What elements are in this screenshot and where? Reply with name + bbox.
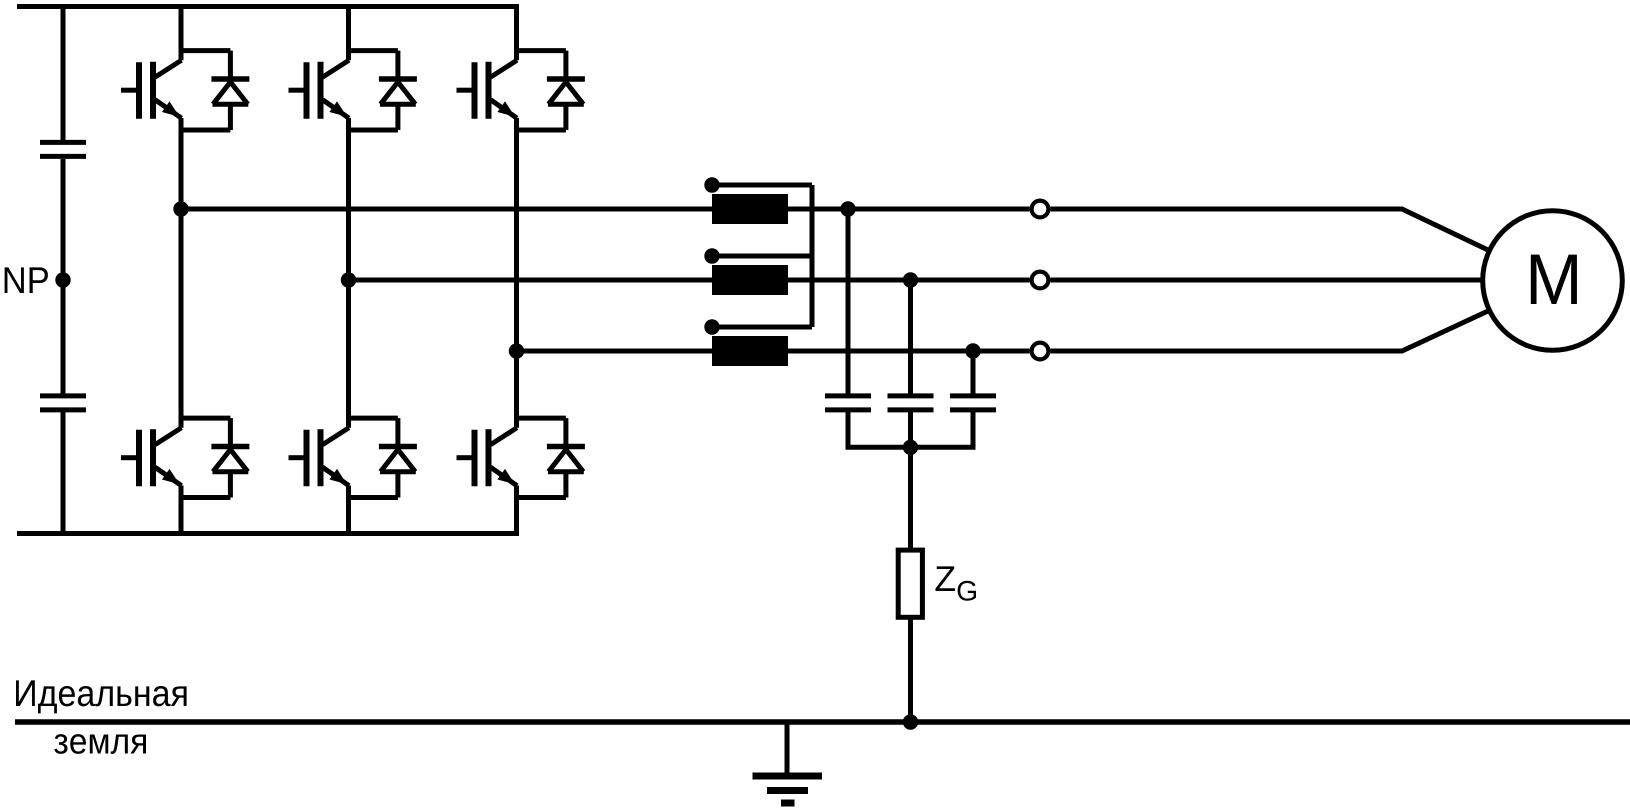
label: Идеальная <box>16 680 35 706</box>
capacitor C2 (lower DC-link) <box>40 396 86 410</box>
wire: phase leg 3 midpoint vertical <box>514 118 519 428</box>
wire: phase C connector to motor <box>1051 311 1489 351</box>
wire: phase leg 1 emitter drop to bottom rail <box>179 486 184 534</box>
wire: phase A line from leg to filter node <box>181 207 848 212</box>
inductor L1 (common-mode choke winding, phase A) <box>712 194 788 224</box>
capacitor Cf1 (filter) <box>825 396 871 410</box>
resistor ZG (ground impedance) <box>898 550 922 617</box>
wire: choke core link vertical <box>810 185 815 327</box>
junction dot filter star point <box>903 440 918 455</box>
label ZG <box>935 566 975 600</box>
inductor L3 (common-mode choke winding, phase C) <box>712 336 788 366</box>
diode D2 (antiparallel) <box>349 51 417 130</box>
terminal: open connector phase B <box>1032 272 1049 289</box>
capacitor Cf3 (filter) <box>950 396 996 410</box>
junction dot choke polarity dot winding 3 <box>704 319 719 334</box>
wire: choke core link horizontal 1 <box>712 183 812 188</box>
wire: phase A connector to motor <box>1051 209 1489 250</box>
junction dot phase A output node <box>173 201 188 216</box>
terminal: open connector phase A <box>1032 201 1049 218</box>
wire: DC-link left branch upper segment <box>61 7 66 141</box>
wire: phase leg 2 midpoint vertical <box>346 118 351 428</box>
junction dot phase C output node <box>509 343 524 358</box>
junction dot phase A filter tap <box>840 201 855 216</box>
wire: Zg to ground plane <box>908 617 913 722</box>
wire: phase B line from leg to filter node <box>349 278 911 283</box>
node NP label <box>5 267 24 293</box>
transistor Q3 (phase C top) (IGBT) <box>457 60 518 119</box>
diode D4 (antiparallel) <box>181 418 249 497</box>
wire: DC-link lower segment <box>61 412 66 534</box>
wire: phase leg 3 emitter drop to bottom rail <box>514 486 519 534</box>
wire: positive DC rail (top bus) <box>17 4 519 9</box>
transistor Q6 (phase C bottom) (IGBT) <box>457 428 518 487</box>
label: земля <box>54 734 67 754</box>
wire: negative DC rail (bottom bus) <box>17 531 519 536</box>
wire: ideal ground plane line <box>15 719 1630 725</box>
junction dot NP (neutral point) <box>55 272 70 287</box>
wire: phase C line from leg to filter node <box>517 349 974 354</box>
wire: DC-link middle segment through NP <box>61 159 66 394</box>
diode D6 (antiparallel) <box>517 418 585 497</box>
inductor L2 (common-mode choke winding, phase B) <box>712 265 788 295</box>
wire: phase B connector to motor <box>1051 278 1483 283</box>
junction dot ground-plane connection <box>903 714 918 729</box>
wire: phase leg 1 midpoint vertical <box>179 118 184 428</box>
wire: phase leg 1 collector drop from top rail <box>179 7 184 61</box>
motor M1 <box>1483 211 1623 351</box>
transistor Q1 (phase A top) (IGBT) <box>121 60 182 119</box>
wire: choke core link horizontal 2 <box>712 254 812 259</box>
wire: phase B tap to connector <box>911 278 1030 283</box>
transistor Q4 (phase A bottom) (IGBT) <box>121 428 182 487</box>
wire: phase leg 2 collector drop from top rail <box>346 7 351 61</box>
wire: phase A tap to connector <box>848 207 1030 212</box>
wire: filter cap 3 upper lead <box>971 351 976 394</box>
wire: filter cap 2 lower lead <box>908 412 913 447</box>
transistor Q5 (phase B bottom) (IGBT) <box>289 428 350 487</box>
junction dot phase B output node <box>341 272 356 287</box>
transistor Q2 (phase B top) (IGBT) <box>289 60 350 119</box>
wire: filter common bus <box>846 445 976 450</box>
junction dot choke polarity dot winding 1 <box>704 177 719 192</box>
diode D1 (antiparallel) <box>181 51 249 130</box>
wire: phase leg 2 emitter drop to bottom rail <box>346 486 351 534</box>
wire: choke core link horizontal 3 <box>712 325 812 330</box>
diode D5 (antiparallel) <box>349 418 417 497</box>
ground symbol <box>753 722 823 803</box>
junction dot phase C filter tap <box>965 343 980 358</box>
wire: phase leg 3 collector drop from top rail <box>514 7 519 61</box>
capacitor Cf2 (filter) <box>888 396 934 410</box>
wire: phase C tap to connector <box>973 349 1030 354</box>
wire: filter cap 1 lower lead <box>846 412 851 447</box>
junction dot choke polarity dot winding 2 <box>704 248 719 263</box>
wire: filter cap 3 lower lead <box>971 412 976 447</box>
junction dot phase B filter tap <box>903 272 918 287</box>
wire: filter cap 2 upper lead <box>908 280 913 394</box>
capacitor C1 (upper DC-link) <box>40 142 86 156</box>
terminal: open connector phase C <box>1032 343 1049 360</box>
diode D3 (antiparallel) <box>517 51 585 130</box>
wire: star point to Zg <box>908 447 913 550</box>
wire: filter cap 1 upper lead <box>846 209 851 394</box>
